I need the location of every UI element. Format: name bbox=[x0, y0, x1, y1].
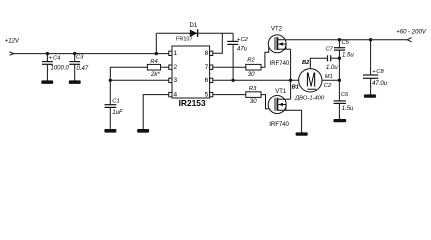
wire top rail to output terminal bbox=[339, 39, 407, 41]
svg-text:30: 30 bbox=[248, 72, 255, 78]
svg-text:47.0u: 47.0u bbox=[372, 81, 388, 87]
wire C3 top lead bbox=[74, 54, 76, 62]
svg-text:C3: C3 bbox=[76, 55, 84, 61]
node C4 junction on +12V rail bbox=[46, 52, 49, 55]
node half-bridge midpoint bbox=[289, 79, 292, 82]
diode D1 bbox=[190, 29, 198, 37]
terminal arrow +60-200V output bbox=[407, 38, 411, 42]
pin 7 bbox=[205, 64, 213, 71]
svg-text:1.5u: 1.5u bbox=[342, 53, 354, 59]
ground under VT1 source bbox=[296, 132, 308, 135]
svg-text:C8: C8 bbox=[376, 69, 384, 75]
svg-text:IRF740: IRF740 bbox=[269, 122, 289, 128]
ground under C6 bbox=[333, 119, 346, 122]
transistor VT2 IRF740 bbox=[268, 35, 290, 53]
wire pin 6 VS rail to motor bbox=[213, 79, 299, 81]
wire C8 bottom lead bbox=[370, 78, 372, 94]
svg-text:D1: D1 bbox=[190, 23, 198, 29]
resistor R4 bbox=[147, 64, 160, 70]
wire right column C5 to C6 bbox=[338, 50, 340, 101]
svg-text:1: 1 bbox=[174, 50, 178, 57]
wire C2 bottom lead to VS node bbox=[232, 44, 234, 80]
svg-text:4: 4 bbox=[174, 91, 178, 98]
pin 2 bbox=[169, 64, 178, 71]
svg-text:1.5u: 1.5u bbox=[342, 106, 354, 112]
wire C8 top lead bbox=[370, 40, 372, 75]
svg-text:ДВО-1-400: ДВО-1-400 bbox=[294, 96, 325, 102]
node C2 bottom junction on VS rail bbox=[231, 79, 234, 82]
svg-text:M: M bbox=[306, 68, 316, 91]
pin 3 bbox=[169, 77, 178, 84]
svg-text:+60 - 200V: +60 - 200V bbox=[396, 29, 427, 35]
ground under C4 bbox=[41, 80, 53, 84]
capacitor C7 bbox=[328, 55, 331, 61]
capacitor C1 bbox=[105, 105, 117, 108]
wire R4 to pin 2 bbox=[161, 66, 169, 68]
svg-text:R4: R4 bbox=[150, 59, 157, 65]
wire pin 7 to R2 bbox=[213, 66, 246, 68]
ground under C8 bbox=[364, 94, 376, 97]
svg-text:C6: C6 bbox=[341, 92, 349, 98]
motor M1 bbox=[299, 68, 322, 92]
node RC timing junction bbox=[109, 79, 112, 82]
resistor R3 bbox=[246, 92, 261, 98]
svg-text:1.0u: 1.0u bbox=[326, 65, 338, 71]
svg-text:FR107: FR107 bbox=[176, 37, 193, 43]
pin 6 bbox=[205, 77, 213, 84]
svg-text:C2: C2 bbox=[241, 37, 249, 43]
wire RC node to pin 3 bbox=[110, 79, 169, 81]
svg-text:1uF: 1uF bbox=[112, 110, 123, 116]
ground under pin 4 bbox=[137, 129, 149, 133]
wire D1 top run to C2 bbox=[156, 32, 233, 34]
svg-text:VT2: VT2 bbox=[271, 27, 283, 33]
wire C6 bottom lead bbox=[338, 103, 340, 119]
wire motor C2 terminal to right column bbox=[322, 79, 339, 81]
svg-text:6: 6 bbox=[205, 77, 209, 84]
wire C4 bottom lead bbox=[46, 64, 48, 80]
capacitor C8 bbox=[363, 69, 378, 78]
wire C1 top lead bbox=[109, 80, 111, 104]
pin 4 bbox=[169, 91, 178, 98]
wire R2 to VT2 gate bbox=[261, 47, 269, 68]
pin 5 bbox=[205, 91, 213, 98]
svg-text:+: + bbox=[49, 55, 53, 61]
node C7 junction on right column bbox=[338, 57, 341, 60]
svg-text:30: 30 bbox=[250, 99, 257, 105]
svg-text:C2: C2 bbox=[324, 83, 332, 89]
wire +12V rail to pin 1 bbox=[14, 53, 169, 55]
wire VT1 drain from midpoint bbox=[290, 80, 292, 99]
wire C3 bottom lead bbox=[74, 64, 76, 80]
wire pin 8 branch from D1 cathode bbox=[213, 33, 223, 53]
wire C2 top lead bbox=[232, 33, 234, 41]
svg-text:7: 7 bbox=[205, 64, 209, 71]
node C8 junction on top rail bbox=[369, 38, 372, 41]
wire R4 left to RC node bbox=[110, 67, 147, 80]
wire C4 top lead bbox=[46, 54, 48, 62]
wire VT2 source down to midpoint bbox=[290, 49, 292, 80]
wire VT2 drain along top rail bbox=[277, 39, 339, 41]
svg-text:B1: B1 bbox=[292, 85, 299, 91]
svg-text:C4: C4 bbox=[53, 55, 60, 61]
capacitor C4 bbox=[42, 55, 53, 64]
svg-text:2k*: 2k* bbox=[150, 72, 160, 78]
capacitor C2 bbox=[227, 37, 241, 44]
terminal arrow +12V input bbox=[9, 52, 13, 55]
wire R3 to VT1 gate bbox=[261, 95, 269, 109]
capacitor C5 bbox=[334, 48, 345, 50]
wire pin 4 to ground bbox=[143, 95, 169, 130]
svg-text:B2: B2 bbox=[302, 60, 310, 66]
resistor R2 bbox=[246, 64, 261, 70]
wire VT1 source to ground bbox=[277, 110, 301, 132]
svg-text:5: 5 bbox=[205, 91, 209, 98]
pin 1 bbox=[169, 50, 178, 57]
svg-text:8: 8 bbox=[205, 50, 209, 57]
IC U1 IR2153 body bbox=[172, 46, 210, 98]
svg-text:VT1: VT1 bbox=[275, 89, 287, 95]
svg-text:47u: 47u bbox=[237, 47, 248, 53]
svg-text:1000.0: 1000.0 bbox=[51, 65, 70, 71]
svg-text:M1: M1 bbox=[325, 74, 333, 80]
node C3 junction on +12V rail bbox=[73, 52, 76, 55]
svg-text:+12V: +12V bbox=[5, 38, 20, 44]
node motor C2 junction on right column bbox=[338, 79, 341, 82]
svg-text:R2: R2 bbox=[247, 58, 255, 64]
node C5 junction on top rail bbox=[338, 38, 341, 41]
wire rail up to D1 anode bbox=[155, 33, 157, 53]
svg-text:C5: C5 bbox=[342, 40, 350, 46]
svg-text:C1: C1 bbox=[112, 98, 119, 104]
capacitor C3 bbox=[69, 62, 80, 65]
svg-text:0.47: 0.47 bbox=[77, 66, 89, 72]
wire pin 5 to R3 bbox=[213, 94, 246, 96]
svg-text:R3: R3 bbox=[249, 86, 257, 92]
wire C7 right lead bbox=[331, 57, 340, 59]
wire motor B2 terminal up to C7 bbox=[310, 58, 327, 68]
ground under C3 bbox=[69, 80, 81, 84]
svg-text:C7: C7 bbox=[326, 47, 334, 53]
capacitor C6 bbox=[334, 101, 346, 104]
wire C5 top lead bbox=[338, 40, 340, 48]
svg-text:3: 3 bbox=[174, 77, 178, 84]
svg-text:2: 2 bbox=[174, 64, 178, 71]
node D1 branch junction on +12V rail bbox=[155, 52, 158, 55]
ground under C1 bbox=[104, 129, 116, 133]
pin 8 bbox=[205, 50, 213, 57]
svg-text:IR2153: IR2153 bbox=[179, 98, 206, 108]
wire C1 bottom lead bbox=[109, 107, 111, 129]
svg-text:IRF740: IRF740 bbox=[270, 61, 290, 67]
transistor VT1 IRF740 bbox=[268, 96, 290, 114]
